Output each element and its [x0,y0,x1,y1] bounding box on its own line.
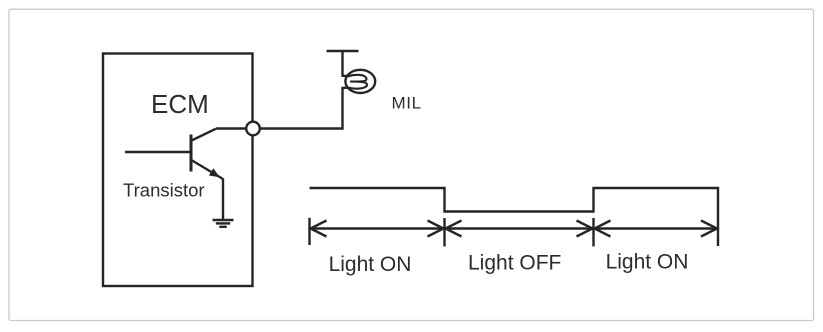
lamp MIL bulb [342,70,376,93]
ground [213,220,234,227]
arrow right end span1 [428,221,444,237]
wire emitter to ground [222,179,224,220]
svg-text:MIL: MIL [392,94,422,113]
waveform trace [310,188,719,246]
wire lamp to supply bar [341,51,343,77]
tick t3 [592,218,594,247]
arrow left end span2 [446,221,462,237]
transistor Q1 [125,129,223,179]
arrow right end span2 [577,221,593,237]
wire collector to node [216,127,246,129]
svg-text:ECM: ECM [151,89,209,119]
tick t2 [443,218,445,247]
tick t1 [308,218,310,245]
timeline axis [310,227,719,229]
svg-text:Transistor: Transistor [123,180,205,201]
power supply terminal bar [327,50,359,52]
arrow left end span1 [311,221,327,237]
node junction on ECM box edge [246,122,260,136]
arrow right end span3 [701,221,717,237]
svg-text:Light ON: Light ON [329,253,412,276]
svg-text:Light ON: Light ON [606,251,689,274]
wire node to lamp [260,87,343,128]
ECM box U1 [103,54,253,287]
svg-text:Light OFF: Light OFF [468,252,561,275]
arrow left end span3 [595,221,611,237]
